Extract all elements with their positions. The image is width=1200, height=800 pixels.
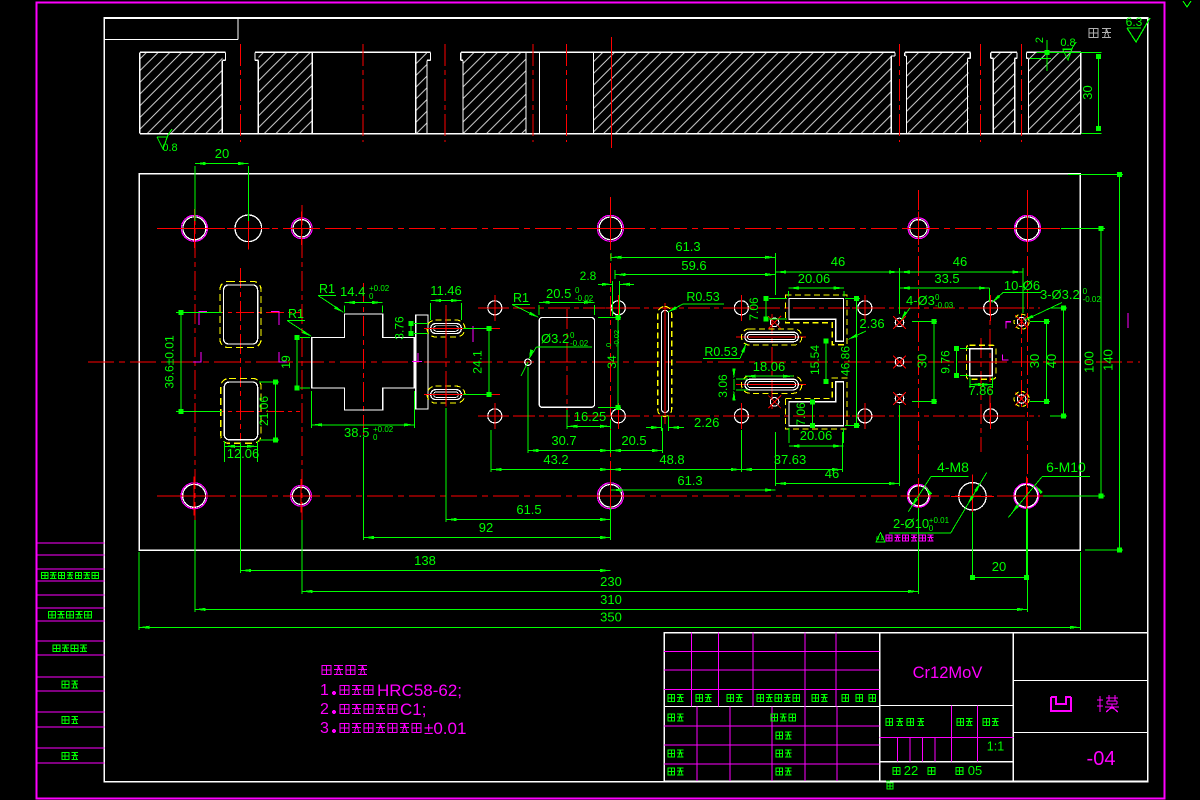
yellow contour circle around upper right phi3 xyxy=(1014,314,1029,329)
dimension 20.5 (mid bottom) xyxy=(611,428,663,453)
svg-text:61.3: 61.3 xyxy=(675,239,700,254)
phi6 hole 2 xyxy=(482,403,508,429)
dimension 34 with tolerance (mid rect) xyxy=(598,315,621,410)
svg-text:1: 1 xyxy=(320,682,329,699)
svg-text:38.5: 38.5 xyxy=(344,425,369,440)
dimension 61.3 (bottom) xyxy=(611,473,776,492)
svg-text:100: 100 xyxy=(1082,351,1097,373)
dimension 46 (bottom) xyxy=(776,405,900,486)
svg-text:-0.02: -0.02 xyxy=(575,294,594,303)
dimension 140 xyxy=(1068,172,1123,553)
svg-text:R1: R1 xyxy=(319,282,335,296)
hole bottom row col3 xyxy=(284,479,317,512)
small hole row centerline lower xyxy=(478,415,1040,417)
left table vertical lines lower xyxy=(697,706,837,781)
phi6 hole 4 xyxy=(605,403,631,429)
left slot upper yellow contour xyxy=(220,281,261,347)
svg-text:48.8: 48.8 xyxy=(659,452,684,467)
tiny corner check mark xyxy=(1183,1,1191,7)
svg-text:46: 46 xyxy=(825,466,839,481)
dimension 24.1 xyxy=(463,326,492,397)
svg-text:R1: R1 xyxy=(513,291,529,305)
svg-text:230: 230 xyxy=(600,574,622,589)
dimension 61.3 (top) xyxy=(611,239,776,295)
square part white xyxy=(970,349,993,376)
svg-text:22: 22 xyxy=(904,763,918,778)
section view hatched block 8 xyxy=(1028,52,1080,133)
left slot lower (white) xyxy=(224,382,257,440)
svg-text:3.06: 3.06 xyxy=(716,374,730,398)
left slot lower yellow contour xyxy=(221,379,261,444)
section slot (left slots column) with counterbore step xyxy=(221,60,223,133)
svg-text:20: 20 xyxy=(215,146,229,161)
svg-text:-0.02: -0.02 xyxy=(1083,295,1102,304)
svg-text:61.5: 61.5 xyxy=(516,502,541,517)
dimension 350 xyxy=(139,552,1080,630)
dimension 7.06 (upper bracket) xyxy=(747,296,787,322)
svg-text:6-M10: 6-M10 xyxy=(1046,459,1086,475)
svg-text:310: 310 xyxy=(600,592,622,607)
section slot (square part column) with step xyxy=(967,58,969,133)
svg-text:350: 350 xyxy=(600,610,622,625)
title block section dividers xyxy=(879,633,881,782)
yellow contour circle around lower right phi3 xyxy=(1014,392,1029,407)
svg-text:20.5: 20.5 xyxy=(546,286,571,301)
dimension 46.86 xyxy=(839,296,861,428)
svg-text:140: 140 xyxy=(1101,349,1116,371)
stadium column horizontal centerlines xyxy=(424,328,500,330)
magenta corner marks near square part xyxy=(1003,322,1011,360)
dimension 2 (step depth) xyxy=(1030,37,1051,71)
hole top row col2 xyxy=(227,207,270,250)
roughness symbol 6.3 (general) xyxy=(1126,15,1150,42)
dimension 61.5 xyxy=(446,408,611,522)
dimension 20 (top left) xyxy=(195,146,249,221)
middle section vertical dividers xyxy=(898,705,978,761)
section view hatched block 2 xyxy=(258,52,312,133)
section view hatched block 4 xyxy=(463,52,526,133)
dimension 9.76 xyxy=(939,346,970,378)
svg-text:7.06: 7.06 xyxy=(747,297,761,321)
section narrow slot xyxy=(525,52,527,133)
label 10-phi6 with leader xyxy=(992,278,1042,303)
label phi3.2 with tolerance and leader xyxy=(521,331,592,376)
svg-text:Ø3.2: Ø3.2 xyxy=(541,331,569,346)
horizontal stadium lower white xyxy=(745,379,799,390)
svg-text:R0.53: R0.53 xyxy=(704,345,737,359)
svg-text:20.06: 20.06 xyxy=(798,271,831,286)
svg-text:-0.02: -0.02 xyxy=(612,330,621,347)
svg-text:2.26: 2.26 xyxy=(694,415,719,430)
dimension 46 (upper right) xyxy=(899,254,1023,314)
stadium slot upper white xyxy=(431,324,462,334)
dimension 19 xyxy=(279,335,310,391)
hole top row col5 xyxy=(902,212,935,245)
svg-text:18.06: 18.06 xyxy=(753,359,786,374)
dimension 11.46 xyxy=(430,283,462,320)
sidebar row lines xyxy=(37,543,105,763)
phi6 hole 3 xyxy=(605,295,631,321)
svg-text:0.8: 0.8 xyxy=(162,142,177,154)
svg-text:16.25: 16.25 xyxy=(574,409,607,424)
top-left frame box xyxy=(104,39,238,41)
square part yellow contour xyxy=(966,345,996,379)
section hole (cross cavity) xyxy=(311,52,313,133)
svg-text:20.5: 20.5 xyxy=(621,433,646,448)
left table horizontal lines xyxy=(664,651,879,764)
label R0.53 (upper) xyxy=(667,290,724,313)
horizontal stadium upper yellow contour xyxy=(742,329,802,345)
tech requirement line 1 xyxy=(320,681,462,700)
tiny mark below xyxy=(886,781,893,789)
phi3 hole 6 xyxy=(1015,315,1028,328)
label 4-phi3 with tolerance and leader xyxy=(901,293,954,321)
phi6 hole 1 xyxy=(482,295,508,321)
svg-text:2.36: 2.36 xyxy=(859,316,884,331)
section view hatched block 3 xyxy=(416,52,427,133)
svg-text:Cr12MoV: Cr12MoV xyxy=(913,664,983,682)
svg-text:0: 0 xyxy=(929,524,934,533)
svg-text:±0.01: ±0.01 xyxy=(424,719,466,738)
lower bracket cavity xyxy=(789,382,844,426)
section slot (stadium column) with step xyxy=(426,60,428,133)
label 6-M10 with leader xyxy=(1008,459,1090,518)
flag triangle note xyxy=(876,533,885,543)
label 4-M8 with leader xyxy=(908,459,969,512)
svg-text:6.3: 6.3 xyxy=(1126,15,1143,29)
svg-text:24.1: 24.1 xyxy=(471,350,485,374)
tech requirement line 2 xyxy=(320,700,426,719)
tech requirements title 技术要求 xyxy=(322,666,367,675)
phi6 hole 9 xyxy=(978,295,1004,321)
dimension 18.06 xyxy=(745,359,794,378)
svg-text:2-Ø10: 2-Ø10 xyxy=(893,516,929,531)
dimension 59.6 xyxy=(615,258,776,279)
sidebar label 借(通)用件登记 xyxy=(42,572,99,578)
dimension 30.7 (mid) xyxy=(528,367,611,453)
label R1 (cross top) xyxy=(318,282,344,313)
phi6 hole 7 xyxy=(852,295,878,321)
svg-text:20.06: 20.06 xyxy=(800,428,833,443)
svg-text:-0.02: -0.02 xyxy=(570,339,589,348)
section slot (small hole column) with step xyxy=(890,56,892,134)
label 2-phi10 with tolerance and leader xyxy=(889,473,987,534)
svg-text:2: 2 xyxy=(320,701,329,718)
svg-text:2.8: 2.8 xyxy=(580,269,597,283)
phi3 hole 3 xyxy=(893,316,906,329)
svg-text:2: 2 xyxy=(1034,37,1046,43)
hole row centerline bottom xyxy=(157,495,1060,497)
svg-text:30.7: 30.7 xyxy=(551,433,576,448)
hole bottom row col1 xyxy=(175,476,214,515)
dimension 20.06 (bottom) xyxy=(789,428,844,448)
part name 凹 模 xyxy=(1051,695,1119,712)
section hole (middle rectangle cavity) xyxy=(593,52,595,133)
horizontal stadium upper white xyxy=(745,332,799,342)
sidebar label 旧底图总号 xyxy=(49,612,92,619)
svg-text:34: 34 xyxy=(605,355,619,369)
svg-text:05: 05 xyxy=(968,763,982,778)
dimension 20.5 with tolerance (mid rect top) xyxy=(539,286,594,315)
dimension 2.36 with leader xyxy=(848,316,885,340)
hole bottom row 6-M10 xyxy=(1007,477,1046,516)
svg-text:46: 46 xyxy=(953,254,967,269)
sheet row 共 22 张 第 05 xyxy=(893,763,982,778)
section view hatched block 1 xyxy=(140,52,222,133)
vertical bar next to cross xyxy=(416,315,428,409)
svg-text:61.3: 61.3 xyxy=(677,473,702,488)
tall narrow slot yellow contour xyxy=(658,307,672,417)
hole bottom row center xyxy=(591,477,630,516)
row labels 设计/标准化 etc xyxy=(668,714,796,721)
section outline left and right edges xyxy=(139,52,141,133)
upper bracket cavity xyxy=(789,299,844,342)
svg-text:0: 0 xyxy=(369,292,374,301)
dimension 30 (section height) xyxy=(1037,52,1102,133)
hole top row col3 xyxy=(285,212,318,245)
hole top row center xyxy=(591,209,630,248)
label R0.53 (lower) xyxy=(703,343,747,360)
left table vertical lines upper xyxy=(692,633,836,707)
svg-text:92: 92 xyxy=(479,520,493,535)
section view hatched block 7 xyxy=(994,52,1015,133)
magenta tick right of plan xyxy=(1127,313,1129,328)
dimension 310 xyxy=(195,508,1028,612)
plan view outer rectangle xyxy=(139,174,1080,551)
label R1 (middle rect) xyxy=(512,291,539,318)
sidebar label 底图总号 xyxy=(53,645,87,652)
svg-text:3.76: 3.76 xyxy=(393,316,407,340)
dimension 46 (upper left) xyxy=(776,254,900,274)
svg-text:-04: -04 xyxy=(1087,748,1116,770)
magenta corner marks around left slots xyxy=(193,312,287,363)
svg-text:HRC58-62;: HRC58-62; xyxy=(377,681,462,700)
svg-text:15.54: 15.54 xyxy=(808,345,822,375)
dimension 7.06 (lower bracket) xyxy=(794,399,815,428)
svg-text:46: 46 xyxy=(831,254,845,269)
svg-text:33.5: 33.5 xyxy=(934,271,959,286)
svg-text:30: 30 xyxy=(915,354,930,368)
tall narrow slot red centerline xyxy=(664,303,666,424)
middle rectangle cavity xyxy=(539,318,594,408)
sidebar label 日期 xyxy=(62,716,78,723)
magenta note 与下模板配作 xyxy=(886,535,934,541)
tall narrow slot R0.53 white xyxy=(662,310,669,412)
dimension 3.76 xyxy=(393,316,429,340)
label R1 (cross left) xyxy=(287,307,312,337)
svg-text:40: 40 xyxy=(1044,354,1059,368)
svg-text:9.76: 9.76 xyxy=(939,350,953,374)
svg-text:12.06: 12.06 xyxy=(227,446,260,461)
phi6 hole 6 xyxy=(728,403,754,429)
dimension 7.86 xyxy=(968,378,993,399)
dimension 30 (left of square) xyxy=(912,319,937,404)
upper bracket yellow contour xyxy=(786,295,848,345)
svg-text:14.4: 14.4 xyxy=(340,284,365,299)
hole bottom row 2-phi10 xyxy=(951,475,994,518)
horizontal stadium lower yellow contour xyxy=(742,376,802,394)
svg-text:20: 20 xyxy=(992,559,1006,574)
phi3 hole 4 xyxy=(893,356,906,369)
main horizontal centerline xyxy=(88,361,1140,363)
dimension 30 (right of square) xyxy=(1027,319,1050,404)
stadium slot lower red cross xyxy=(424,394,468,396)
hole bottom row 4-M8 pilot xyxy=(901,478,937,514)
tech requirement line 3 xyxy=(320,719,466,738)
horizontal stadium centerlines xyxy=(736,336,806,338)
section slot (right small hole column) with step xyxy=(1014,58,1016,133)
phi6 hole 8 xyxy=(852,403,878,429)
phi3 hole 5 xyxy=(893,392,906,405)
dimension 14.4 with tolerance xyxy=(340,284,390,313)
small hole phi3.2 xyxy=(525,359,531,365)
square part red cross xyxy=(958,361,1005,363)
stadium slot lower yellow contour xyxy=(427,386,465,403)
svg-text:30: 30 xyxy=(1027,354,1042,368)
header labels 标记 处数 分区 更改文件号 签名 年月日 xyxy=(668,695,876,702)
dimension 33.5 xyxy=(899,271,989,302)
svg-text:46.86: 46.86 xyxy=(839,346,853,376)
svg-text:30: 30 xyxy=(1080,85,1095,99)
dimension 43.2 xyxy=(491,430,610,472)
dimension 37.63 xyxy=(741,432,842,472)
svg-text:10-Ø6: 10-Ø6 xyxy=(1004,278,1040,293)
svg-text:11.46: 11.46 xyxy=(430,283,462,298)
hole top row col6 xyxy=(1008,209,1047,248)
hole top row col1 xyxy=(175,209,214,248)
label 3-phi3.2 with tolerance and leader xyxy=(1024,287,1102,321)
section outline top edge segments xyxy=(140,51,1081,53)
svg-text:138: 138 xyxy=(414,553,436,568)
phi3 hole 7 xyxy=(1015,393,1028,406)
dimension 2.26 xyxy=(646,415,719,431)
dimension 48.8 xyxy=(611,430,742,472)
labels 阶段标记 重量 比例 xyxy=(886,719,999,726)
svg-text:R1: R1 xyxy=(288,307,304,321)
row labels 工艺 / 批准 xyxy=(668,768,792,775)
phi6 hole 10 xyxy=(978,403,1004,429)
section main axis red centerline xyxy=(611,37,613,148)
svg-text:36.6±0.01: 36.6±0.01 xyxy=(163,335,177,389)
dimension 92 xyxy=(364,437,611,540)
dimension 138 xyxy=(241,443,611,573)
svg-text:R0.53: R0.53 xyxy=(686,290,719,304)
section red centerlines xyxy=(241,44,1022,142)
row labels 审核 / 签字 xyxy=(668,750,792,757)
dimension 230 xyxy=(302,508,919,594)
section view hatched block 5 xyxy=(594,52,892,133)
svg-text:3: 3 xyxy=(320,720,329,737)
long vertical centerlines xyxy=(195,190,1028,525)
svg-text:1:1: 1:1 xyxy=(987,740,1004,754)
svg-text:-0.03: -0.03 xyxy=(935,301,954,310)
section view hatched block 6 xyxy=(907,52,969,133)
dimension 36.6 plus-minus 0.01 xyxy=(163,310,223,414)
svg-text:0.8: 0.8 xyxy=(1060,37,1075,49)
svg-text:0: 0 xyxy=(373,433,378,442)
roughness symbol 0.8 below section xyxy=(157,129,178,154)
phi3 hole 2 xyxy=(768,395,781,408)
svg-text:7.86: 7.86 xyxy=(968,383,993,398)
section outline bottom edge xyxy=(140,133,1081,135)
small hole row centerline upper xyxy=(478,307,1040,309)
magenta dashes near stadium column xyxy=(412,326,473,362)
phi6 hole 5 xyxy=(728,295,754,321)
dimension 12.06 xyxy=(224,441,259,462)
svg-text:4-Ø3: 4-Ø3 xyxy=(906,293,935,308)
svg-text:59.6: 59.6 xyxy=(681,258,706,273)
row label 描校 xyxy=(776,732,792,739)
dimension 15.54 xyxy=(808,339,829,384)
stadium slot lower white xyxy=(431,390,462,400)
left slot horizontal centerlines xyxy=(176,312,300,314)
left slot upper (white) xyxy=(224,285,258,344)
svg-text:0.8: 0.8 xyxy=(876,536,884,542)
lower bracket yellow contour xyxy=(786,378,848,429)
svg-text:7.06: 7.06 xyxy=(794,402,808,426)
dimension 21.06 xyxy=(257,380,279,443)
sidebar label 签名 xyxy=(62,681,78,688)
dimension 20 (bottom right) xyxy=(970,509,1029,580)
dimension 100 xyxy=(1043,226,1105,499)
hole row centerline top xyxy=(157,227,1060,229)
dimension 2.8 xyxy=(580,269,634,316)
svg-text:C1;: C1; xyxy=(400,700,426,719)
phi3 hole 1 xyxy=(768,316,781,329)
note 其余 (gray) xyxy=(1089,29,1111,38)
svg-text:4-M8: 4-M8 xyxy=(937,459,969,475)
svg-text:43.2: 43.2 xyxy=(543,452,568,467)
svg-text:19: 19 xyxy=(279,355,293,369)
svg-text:37.63: 37.63 xyxy=(774,452,807,467)
title block outer border xyxy=(664,633,1148,782)
roughness symbol 0.8 (top, step surface) xyxy=(1060,37,1076,60)
dimension 16.25 xyxy=(567,409,611,429)
dimension 20.06 (top) xyxy=(789,271,845,297)
svg-text:3-Ø3.2: 3-Ø3.2 xyxy=(1040,287,1080,302)
right section horizontal dividers xyxy=(1013,679,1148,681)
dimension 3.06 xyxy=(716,369,748,401)
stadium slot upper red cross xyxy=(424,328,468,330)
cross-shaped cavity outline xyxy=(312,314,415,410)
middle section horizontal dividers xyxy=(880,704,1014,706)
dimension 38.5 with tolerance xyxy=(312,391,415,442)
dimension 40 xyxy=(1044,305,1067,418)
stadium slot upper yellow contour xyxy=(427,320,465,337)
svg-text:21.06: 21.06 xyxy=(257,396,271,426)
sidebar label 日期 (lower) xyxy=(62,752,78,759)
